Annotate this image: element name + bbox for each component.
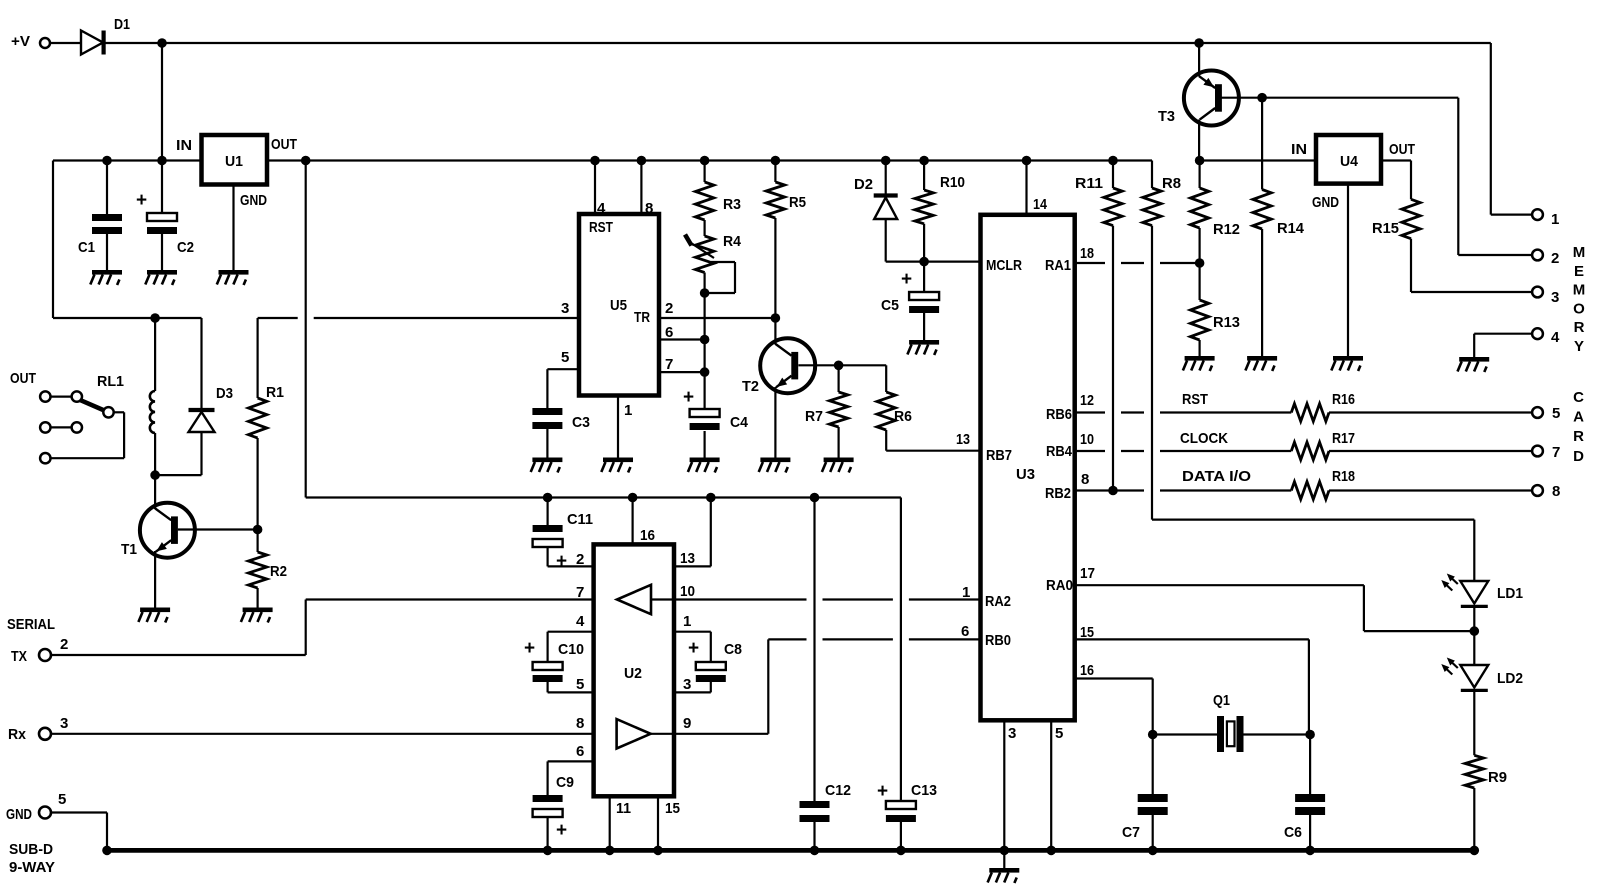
svg-text:3: 3 bbox=[60, 715, 68, 732]
svg-text:C10: C10 bbox=[558, 641, 584, 658]
svg-text:D3: D3 bbox=[216, 385, 233, 402]
svg-text:U2: U2 bbox=[624, 665, 642, 682]
svg-text:R15: R15 bbox=[1372, 220, 1399, 237]
svg-text:Rx: Rx bbox=[8, 726, 27, 743]
svg-text:C1: C1 bbox=[78, 239, 95, 256]
svg-text:IN: IN bbox=[176, 137, 192, 154]
svg-text:D2: D2 bbox=[854, 176, 873, 193]
svg-text:7: 7 bbox=[665, 356, 673, 373]
svg-text:D1: D1 bbox=[114, 16, 130, 33]
svg-text:T1: T1 bbox=[121, 541, 137, 558]
svg-text:U4: U4 bbox=[1340, 153, 1359, 170]
svg-text:R16: R16 bbox=[1332, 391, 1355, 408]
svg-text:U1: U1 bbox=[225, 153, 243, 170]
svg-text:C11: C11 bbox=[567, 511, 593, 528]
svg-text:C6: C6 bbox=[1284, 824, 1302, 841]
svg-text:RB4: RB4 bbox=[1046, 443, 1073, 460]
svg-text:C3: C3 bbox=[572, 414, 590, 431]
svg-text:18: 18 bbox=[1080, 245, 1094, 262]
svg-text:R10: R10 bbox=[940, 174, 965, 191]
svg-text:3: 3 bbox=[1551, 289, 1559, 306]
svg-text:LD2: LD2 bbox=[1497, 670, 1523, 687]
svg-text:2: 2 bbox=[1551, 250, 1559, 267]
svg-text:6: 6 bbox=[961, 623, 969, 640]
svg-text:Y: Y bbox=[1574, 338, 1584, 355]
svg-text:R2: R2 bbox=[270, 563, 287, 580]
svg-text:D: D bbox=[1573, 448, 1584, 465]
svg-text:8: 8 bbox=[645, 200, 653, 217]
svg-text:TR: TR bbox=[634, 309, 650, 326]
svg-text:R12: R12 bbox=[1213, 221, 1240, 238]
svg-text:C5: C5 bbox=[881, 297, 899, 314]
svg-text:C9: C9 bbox=[556, 774, 574, 791]
svg-text:R14: R14 bbox=[1277, 220, 1305, 237]
svg-text:MCLR: MCLR bbox=[986, 257, 1022, 274]
svg-text:C13: C13 bbox=[911, 782, 937, 799]
svg-text:1: 1 bbox=[962, 584, 970, 601]
svg-text:9: 9 bbox=[683, 715, 691, 732]
svg-text:RB6: RB6 bbox=[1046, 406, 1072, 423]
svg-text:RA2: RA2 bbox=[985, 593, 1011, 610]
svg-text:8: 8 bbox=[576, 715, 584, 732]
svg-text:R4: R4 bbox=[723, 233, 742, 250]
svg-text:7: 7 bbox=[1552, 444, 1560, 461]
svg-text:12: 12 bbox=[1080, 392, 1094, 409]
svg-text:11: 11 bbox=[616, 800, 631, 817]
svg-text:RL1: RL1 bbox=[97, 373, 124, 390]
svg-text:R5: R5 bbox=[789, 194, 806, 211]
svg-text:2: 2 bbox=[576, 551, 584, 568]
svg-text:16: 16 bbox=[640, 527, 655, 544]
svg-text:7: 7 bbox=[576, 584, 584, 601]
svg-text:TX: TX bbox=[11, 648, 27, 665]
svg-text:U5: U5 bbox=[610, 297, 627, 314]
svg-text:3: 3 bbox=[683, 676, 691, 693]
svg-text:+: + bbox=[524, 638, 535, 659]
svg-text:CLOCK: CLOCK bbox=[1180, 430, 1228, 447]
svg-text:13: 13 bbox=[680, 550, 695, 567]
svg-text:R18: R18 bbox=[1332, 468, 1355, 485]
svg-text:Q1: Q1 bbox=[1213, 692, 1230, 709]
svg-text:R6: R6 bbox=[894, 408, 912, 425]
svg-text:T2: T2 bbox=[742, 378, 759, 395]
svg-text:C7: C7 bbox=[1122, 824, 1140, 841]
svg-text:2: 2 bbox=[665, 300, 673, 317]
svg-text:RB7: RB7 bbox=[986, 447, 1012, 464]
svg-text:4: 4 bbox=[597, 200, 606, 217]
svg-text:SUB-D: SUB-D bbox=[9, 841, 53, 858]
svg-text:OUT: OUT bbox=[1389, 141, 1415, 158]
svg-text:GND: GND bbox=[6, 806, 32, 823]
svg-text:13: 13 bbox=[956, 431, 970, 448]
svg-text:RST: RST bbox=[589, 219, 613, 236]
svg-text:1: 1 bbox=[1551, 211, 1559, 228]
svg-text:M: M bbox=[1573, 282, 1586, 299]
svg-text:+: + bbox=[556, 551, 567, 572]
svg-text:R: R bbox=[1574, 319, 1585, 336]
svg-text:R3: R3 bbox=[723, 196, 741, 213]
svg-text:M: M bbox=[1573, 244, 1586, 261]
svg-text:SERIAL: SERIAL bbox=[7, 616, 55, 633]
svg-text:RST: RST bbox=[1182, 391, 1208, 408]
svg-text:+: + bbox=[877, 781, 888, 802]
svg-text:C8: C8 bbox=[724, 641, 742, 658]
svg-text:C: C bbox=[1573, 389, 1584, 406]
svg-text:C2: C2 bbox=[177, 239, 194, 256]
svg-text:R: R bbox=[1573, 428, 1584, 445]
svg-text:DATA I/O: DATA I/O bbox=[1182, 468, 1251, 485]
svg-text:+: + bbox=[556, 820, 567, 841]
svg-text:3: 3 bbox=[1008, 725, 1016, 742]
svg-text:2: 2 bbox=[60, 636, 68, 653]
svg-text:15: 15 bbox=[665, 800, 680, 817]
svg-text:OUT: OUT bbox=[10, 370, 36, 387]
svg-text:LD1: LD1 bbox=[1497, 585, 1523, 602]
svg-text:A: A bbox=[1573, 409, 1584, 426]
svg-text:8: 8 bbox=[1552, 483, 1560, 500]
svg-text:R7: R7 bbox=[805, 408, 823, 425]
svg-text:C12: C12 bbox=[825, 782, 851, 799]
svg-text:GND: GND bbox=[1312, 194, 1339, 211]
svg-text:+: + bbox=[136, 190, 147, 211]
svg-text:RA0: RA0 bbox=[1046, 577, 1073, 594]
svg-text:16: 16 bbox=[1080, 662, 1094, 679]
svg-text:14: 14 bbox=[1033, 196, 1048, 213]
svg-text:GND: GND bbox=[240, 192, 267, 209]
svg-text:5: 5 bbox=[561, 349, 569, 366]
svg-text:U3: U3 bbox=[1016, 466, 1035, 483]
svg-text:E: E bbox=[1574, 263, 1584, 280]
svg-text:3: 3 bbox=[561, 300, 569, 317]
svg-text:4: 4 bbox=[1551, 329, 1560, 346]
svg-text:C4: C4 bbox=[730, 414, 749, 431]
svg-text:+V: +V bbox=[11, 33, 30, 50]
svg-text:10: 10 bbox=[1080, 431, 1094, 448]
svg-text:5: 5 bbox=[58, 791, 66, 808]
svg-text:IN: IN bbox=[1291, 141, 1307, 158]
svg-text:RB2: RB2 bbox=[1045, 485, 1071, 502]
svg-text:RA1: RA1 bbox=[1045, 257, 1071, 274]
svg-text:4: 4 bbox=[576, 613, 585, 630]
svg-text:+: + bbox=[901, 269, 912, 290]
svg-text:15: 15 bbox=[1080, 624, 1094, 641]
svg-text:10: 10 bbox=[680, 583, 695, 600]
svg-text:RB0: RB0 bbox=[985, 632, 1011, 649]
svg-text:R9: R9 bbox=[1488, 769, 1507, 786]
svg-text:17: 17 bbox=[1080, 565, 1095, 582]
svg-text:9-WAY: 9-WAY bbox=[9, 859, 55, 876]
svg-text:R17: R17 bbox=[1332, 430, 1355, 447]
svg-text:6: 6 bbox=[576, 743, 584, 760]
svg-text:R11: R11 bbox=[1075, 175, 1103, 192]
svg-text:T3: T3 bbox=[1158, 108, 1175, 125]
svg-text:+: + bbox=[683, 387, 694, 408]
svg-text:OUT: OUT bbox=[271, 136, 297, 153]
svg-text:1: 1 bbox=[683, 613, 691, 630]
svg-text:1: 1 bbox=[624, 402, 632, 419]
svg-text:5: 5 bbox=[576, 676, 584, 693]
svg-text:R13: R13 bbox=[1213, 314, 1240, 331]
svg-text:+: + bbox=[688, 638, 699, 659]
svg-text:6: 6 bbox=[665, 324, 673, 341]
svg-text:R8: R8 bbox=[1162, 175, 1181, 192]
svg-text:5: 5 bbox=[1552, 405, 1560, 422]
svg-text:8: 8 bbox=[1081, 471, 1089, 488]
svg-text:R1: R1 bbox=[266, 384, 284, 401]
svg-text:5: 5 bbox=[1055, 725, 1063, 742]
svg-text:O: O bbox=[1573, 300, 1585, 317]
